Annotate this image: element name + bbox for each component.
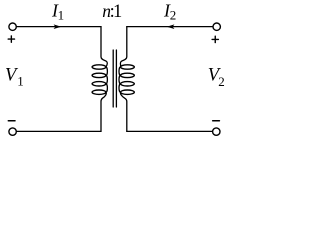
transformer T1 secondary winding (119, 27, 134, 132)
svg-text:2: 2 (218, 74, 225, 89)
svg-text:2: 2 (170, 8, 177, 23)
transformer T1 primary winding (92, 27, 107, 132)
minus sign left (8, 120, 15, 122)
label V2 (208, 65, 225, 89)
svg-text:1: 1 (113, 2, 122, 22)
terminal bottom-right (213, 128, 220, 135)
transformer T1 core (113, 50, 116, 107)
label n:1 (102, 1, 122, 22)
svg-text:1: 1 (17, 74, 24, 89)
wire top-right (127, 26, 213, 28)
terminal bottom-left (9, 128, 16, 135)
terminal top-left (9, 23, 16, 30)
wire top-left (17, 26, 101, 28)
arrow for I2 (pointing left) (167, 24, 175, 29)
label V1 (5, 65, 24, 89)
minus sign right (213, 120, 220, 122)
terminal top-right (213, 23, 220, 30)
label I2 (163, 1, 176, 23)
wire bottom-left (17, 130, 101, 132)
plus sign left (8, 36, 14, 42)
wire bottom-right (127, 130, 212, 132)
plus sign right (212, 36, 218, 42)
label I1 (51, 1, 64, 23)
svg-text:1: 1 (58, 8, 65, 23)
arrow for I1 (pointing right) (54, 24, 62, 29)
